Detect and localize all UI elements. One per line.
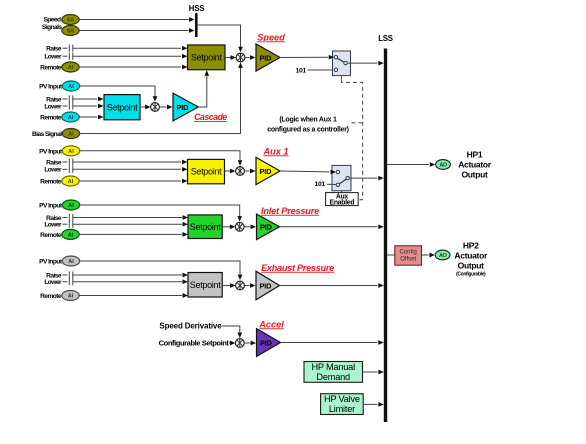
input AI oval: cascade remote (62, 112, 79, 122)
svg-text:101: 101 (315, 181, 326, 188)
svg-text:Setpoint: Setpoint (191, 167, 222, 177)
setpoint box: Exhaust Pressure (188, 273, 222, 298)
PID: Exhaust Pressure (256, 271, 280, 300)
wire HP Valve Limiter to LSS bar (363, 402, 384, 407)
wire exhaust junction to PID (244, 283, 255, 288)
wire inlet raise to setpoint (73, 215, 188, 220)
LSS bus bar (378, 34, 393, 422)
wire speed lower to setpoint (73, 54, 188, 59)
HP Manual Demand box (304, 362, 363, 383)
svg-text:Demand: Demand (316, 372, 350, 382)
setpoint box: Speed (188, 45, 226, 70)
PID: Accel (257, 329, 281, 357)
svg-text:HP1: HP1 (467, 149, 483, 159)
summing junction: aux (236, 167, 245, 176)
wire aux setpoint to junction (225, 169, 236, 174)
svg-text:101: 101 (296, 68, 307, 75)
input AI oval: speed remote (62, 62, 79, 72)
wire HP Manual Demand to LSS bar (363, 370, 384, 375)
svg-text:SS: SS (67, 18, 75, 24)
summing junction: inlet (235, 222, 244, 231)
wire bias signal to speed junction bottom (80, 62, 243, 133)
svg-text:PID: PID (260, 53, 273, 62)
svg-text:PV Input: PV Input (39, 84, 63, 91)
wire speed PID to switch 101-1 (280, 55, 334, 60)
output AO oval: HP2 (435, 250, 450, 260)
contact: exhaust raise (63, 271, 73, 278)
wire HSS to speed summing junction (198, 25, 243, 52)
svg-text:AI: AI (68, 203, 74, 209)
dashed connector from note text (352, 122, 363, 124)
wire 101 to switch 2 (327, 183, 337, 185)
svg-text:Output: Output (458, 260, 485, 270)
contact: speed lower (63, 53, 73, 60)
svg-text:AI: AI (68, 179, 74, 185)
wire exhaust PID to LSS bar (280, 283, 384, 288)
PID: Inlet Pressure (257, 214, 280, 240)
wire cascade PID output up to speed setpoint bottom (198, 70, 209, 107)
svg-text:Raise: Raise (46, 46, 62, 53)
wire switch 1 to LSS bar (347, 61, 384, 66)
wire speed setpoint to summing junction (225, 55, 236, 60)
svg-text:Lower: Lower (44, 103, 62, 110)
setpoint box: Inlet Pressure (188, 215, 222, 239)
wire speed derivative to junction top (222, 326, 242, 338)
svg-text:HSS: HSS (189, 4, 204, 13)
input SS oval 2 (62, 26, 79, 36)
wire cascade setpoint to junction (140, 105, 151, 110)
wire LSS to Config Offset (387, 254, 395, 256)
wire aux raise to setpoint (73, 160, 188, 165)
svg-text:HP Manual: HP Manual (311, 362, 355, 372)
input AI oval: cascade PV (62, 81, 79, 91)
wire cascade lower to setpoint (73, 104, 104, 109)
wire exhaust lower to setpoint (73, 279, 188, 284)
svg-text:PID: PID (260, 223, 273, 232)
svg-text:Limiter: Limiter (329, 404, 355, 414)
svg-text:PV Input: PV Input (39, 203, 63, 210)
summing junction: accel (235, 339, 244, 348)
contact: cascade raise (63, 95, 73, 102)
contact: inlet lower (63, 221, 73, 228)
svg-text:AI: AI (68, 132, 74, 138)
setpoint box: Aux 1 (188, 159, 225, 183)
wire inlet PID to LSS bar (280, 224, 384, 229)
svg-text:PID: PID (260, 281, 273, 290)
svg-text:Exhaust Pressure: Exhaust Pressure (261, 263, 334, 273)
wire speed raise to setpoint (73, 46, 188, 51)
wire aux PV to junction top (80, 151, 243, 166)
wire exhaust raise to setpoint (73, 273, 188, 278)
summing junction: cascade (151, 103, 160, 112)
svg-text:Remote: Remote (40, 64, 62, 71)
PID: Speed (256, 44, 280, 71)
svg-text:HP2: HP2 (463, 240, 479, 250)
wire inlet junction to PID (244, 224, 256, 229)
wire aux lower to setpoint (73, 167, 188, 172)
svg-text:SS: SS (67, 29, 75, 35)
svg-text:(Configurable): (Configurable) (456, 271, 486, 277)
svg-text:Lower: Lower (44, 222, 62, 229)
wire exhaust remote to setpoint (79, 293, 188, 298)
svg-text:Speed: Speed (43, 17, 61, 24)
wire inlet PV to junction top (80, 205, 242, 222)
input AI oval: inlet remote (62, 229, 79, 239)
wire LSS to HP1 actuator output (387, 162, 435, 167)
svg-text:PID: PID (177, 103, 190, 112)
wire aux PID to switch 101-2 (280, 170, 336, 175)
wire aux remote to setpoint (79, 179, 187, 184)
svg-text:Lower: Lower (44, 167, 62, 174)
svg-text:Lower: Lower (44, 54, 62, 61)
wire exhaust PV to junction top (80, 261, 243, 280)
svg-text:Remote: Remote (40, 293, 62, 300)
wire inlet remote to setpoint (79, 232, 188, 237)
contact: cascade lower (63, 102, 73, 109)
wire inlet setpoint to junction (222, 224, 235, 229)
svg-text:LSS: LSS (378, 34, 393, 43)
svg-text:(Logic when Aux 1: (Logic when Aux 1 (279, 116, 337, 123)
svg-text:AO: AO (439, 253, 447, 259)
wire SS1 to HSS bar (79, 17, 194, 22)
svg-text:AI: AI (68, 232, 74, 238)
svg-text:Config: Config (400, 249, 417, 255)
svg-text:PV Input: PV Input (39, 259, 63, 266)
svg-text:configured as a controller): configured as a controller) (267, 127, 349, 134)
contact: inlet raise (63, 214, 73, 221)
svg-text:Bias Signal: Bias Signal (32, 131, 62, 138)
wire Config Offset to AO HP2 (422, 253, 435, 258)
wire 101 to switch 1 (308, 69, 334, 71)
wire exhaust setpoint to junction (222, 283, 235, 288)
transfer switch 101-1 (speed) (333, 51, 351, 76)
contact: aux raise (63, 158, 73, 165)
svg-text:Inlet Pressure: Inlet Pressure (261, 206, 319, 216)
svg-text:Aux 1: Aux 1 (262, 146, 288, 156)
svg-text:Signals: Signals (42, 24, 62, 31)
svg-text:Speed: Speed (257, 32, 285, 42)
svg-text:Enabled: Enabled (330, 200, 355, 207)
svg-text:Cascade: Cascade (194, 112, 227, 122)
svg-text:Configurable Setpoint: Configurable Setpoint (159, 339, 230, 348)
contact: aux lower (63, 166, 73, 173)
svg-text:HP Valve: HP Valve (324, 394, 360, 404)
input SS oval 1 (62, 15, 79, 25)
svg-text:PID: PID (260, 338, 273, 347)
svg-text:PV Input: PV Input (39, 148, 63, 155)
wire inlet lower to setpoint (73, 222, 188, 227)
svg-text:Actuator: Actuator (458, 159, 492, 169)
label HP2 Actuator Output (Configurable) (454, 240, 488, 277)
contact: speed raise (63, 45, 73, 52)
svg-text:PID: PID (260, 167, 273, 176)
svg-text:Raise: Raise (46, 159, 62, 166)
wire SS2 to HSS bar (79, 28, 194, 33)
svg-text:Speed Derivative: Speed Derivative (159, 321, 222, 330)
HP Valve Limiter box (321, 394, 364, 415)
svg-text:Setpoint: Setpoint (190, 222, 221, 232)
Config Offset box (395, 246, 422, 265)
transfer switch 101-2 (aux) (332, 165, 351, 190)
svg-text:Offset: Offset (400, 256, 416, 262)
svg-text:AI: AI (68, 149, 74, 155)
svg-text:AI: AI (68, 115, 74, 121)
svg-text:Raise: Raise (46, 96, 62, 103)
input AI oval: aux remote (62, 176, 79, 186)
svg-text:Remote: Remote (40, 114, 62, 121)
wire cascade junction to PID (159, 105, 172, 110)
contact: exhaust lower (63, 278, 73, 285)
dashed logic wire from switch 1 to Aux Enabled (342, 76, 363, 200)
wire cascade raise to setpoint (73, 97, 104, 102)
label HP1 Actuator Output (458, 149, 492, 179)
output AO oval: HP1 (436, 160, 451, 170)
svg-text:AI: AI (68, 65, 74, 71)
input AI oval: aux PV (62, 146, 79, 156)
svg-text:Remote: Remote (40, 178, 62, 185)
svg-text:Remote: Remote (40, 232, 62, 239)
Aux Enabled box (326, 191, 359, 207)
note text: logic when Aux 1 configured as a controller (267, 116, 349, 133)
svg-text:Setpoint: Setpoint (107, 102, 138, 112)
wire configurable setpoint to junction (229, 341, 235, 346)
wire cascade PV to junction top (80, 86, 158, 102)
summing junction: speed (236, 53, 245, 62)
svg-text:Setpoint: Setpoint (191, 52, 222, 62)
svg-text:Accel: Accel (258, 319, 284, 329)
PID: Aux 1 (256, 157, 280, 184)
svg-text:AI: AI (68, 294, 74, 300)
svg-text:Lower: Lower (44, 279, 62, 286)
wire speed remote to setpoint (79, 65, 187, 70)
wire switch 2 to LSS bar (349, 176, 383, 181)
wire aux junction to PID (244, 169, 255, 174)
wire speed junction to PID (245, 55, 256, 60)
PID: Cascade (173, 93, 198, 121)
input AI oval: inlet PV (62, 200, 79, 210)
wire accel PID to LSS bar (281, 340, 384, 345)
input AI oval: exhaust PV (62, 256, 79, 266)
summing junction: exhaust (236, 281, 245, 290)
svg-text:AI: AI (68, 259, 74, 265)
input label: Speed Signals (42, 17, 62, 32)
input AI oval: bias signal (62, 129, 79, 139)
svg-text:Actuator: Actuator (454, 250, 488, 260)
wire cascade remote to setpoint (79, 115, 103, 120)
svg-text:Setpoint: Setpoint (190, 280, 221, 290)
wire accel junction to PID (244, 341, 256, 346)
HSS bus bar (189, 4, 204, 37)
svg-text:Output: Output (461, 169, 488, 179)
input AI oval: exhaust remote (62, 291, 79, 301)
svg-text:AI: AI (68, 84, 74, 90)
setpoint box: Cascade (104, 95, 140, 120)
